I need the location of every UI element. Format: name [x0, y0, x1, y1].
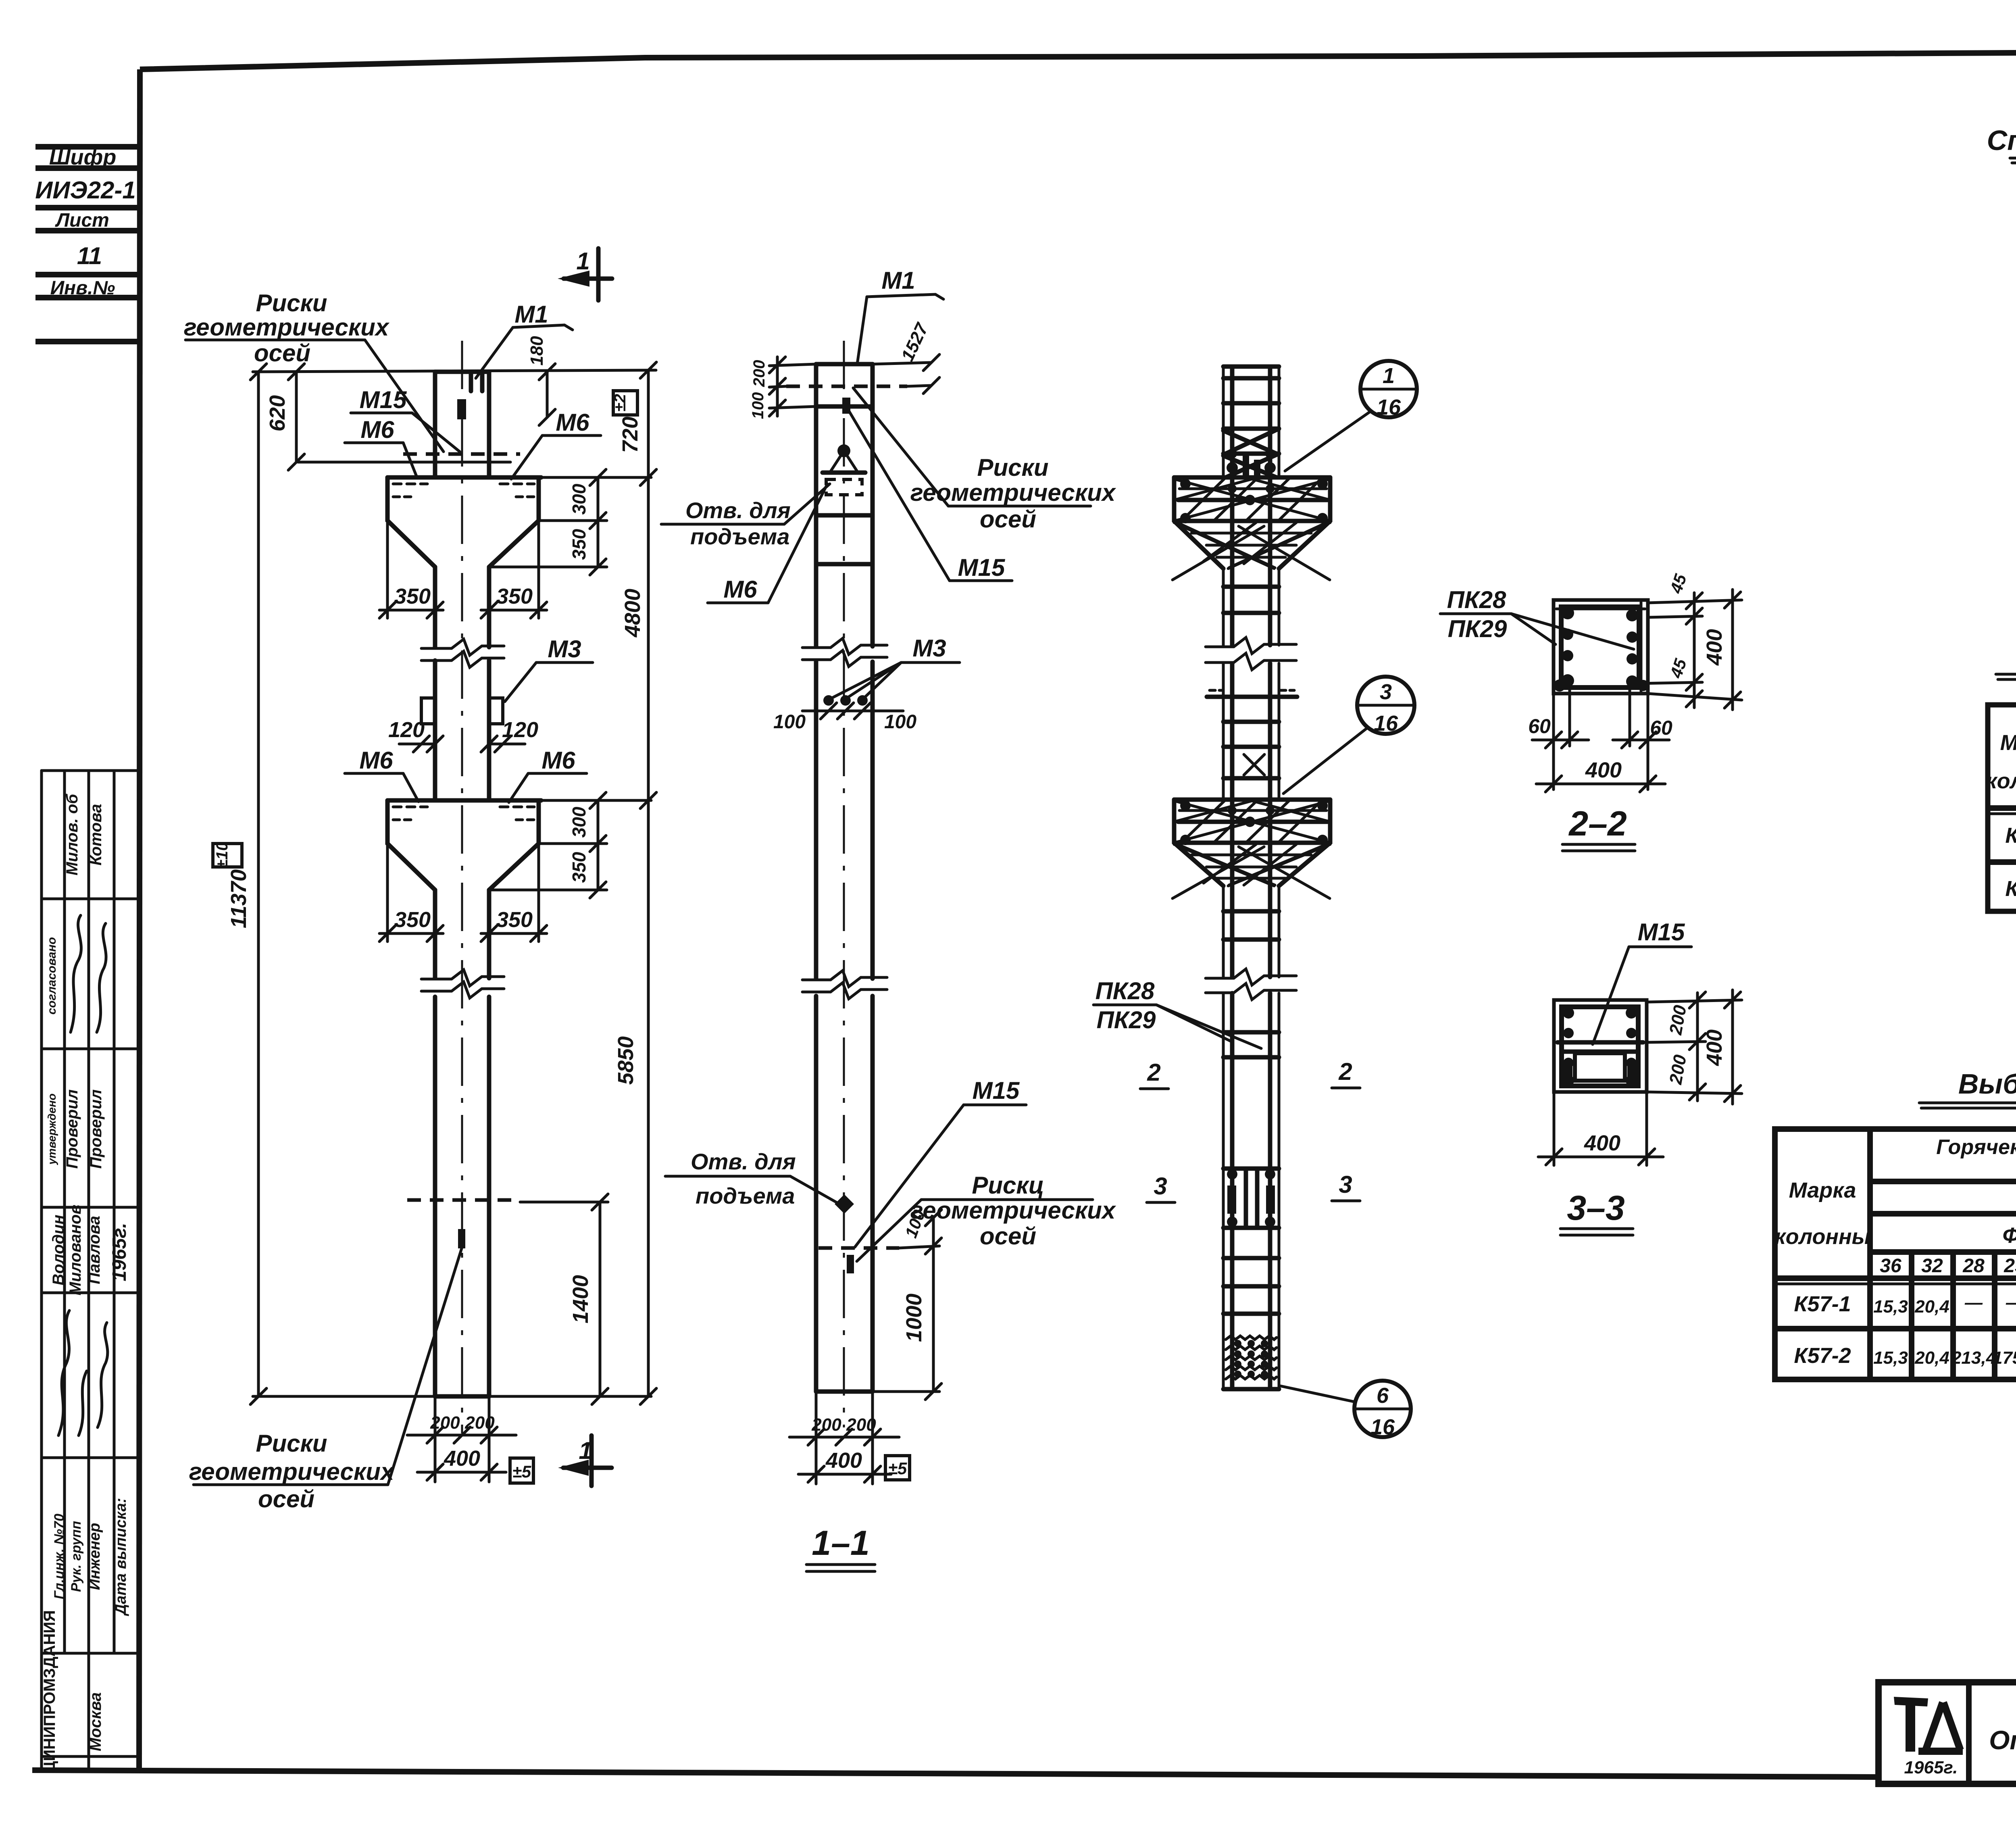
break symbol 2 [421, 970, 504, 986]
dim 11370 [257, 372, 260, 1396]
svg-text:М15: М15 [360, 386, 407, 413]
bottom mesh [1226, 1336, 1277, 1340]
svg-text:15,3: 15,3 [1873, 1348, 1908, 1368]
svg-text:Рискц: Рискц [972, 1172, 1044, 1199]
svg-text:Москва: Москва [87, 1692, 104, 1751]
ties below corbel2 [1223, 909, 1279, 914]
svg-text:Милов. об: Милов. об [63, 794, 81, 875]
svg-text:ПК28: ПК28 [1095, 977, 1155, 1004]
break 2 [1206, 969, 1296, 985]
svg-text:11: 11 [77, 242, 102, 269]
svg-text:согласовано: согласовано [45, 937, 58, 1015]
svg-text:1: 1 [1383, 364, 1395, 388]
dims 100 100 [802, 710, 903, 713]
svg-text:Марка: Марка [2000, 731, 2016, 755]
svg-text:20,4: 20,4 [1914, 1348, 1949, 1368]
svg-text:подъема: подъема [696, 1183, 795, 1208]
svg-text:60: 60 [1528, 715, 1551, 738]
svg-text:К57-2: К57-2 [2005, 877, 2016, 901]
svg-text:5850: 5850 [614, 1036, 638, 1085]
section circle 1/16 [1360, 361, 1417, 417]
svg-text:±2: ±2 [611, 394, 629, 412]
M1 embed marks at column top [469, 373, 473, 391]
svg-text:М6: М6 [360, 416, 394, 443]
svg-text:Котова: Котова [87, 804, 105, 866]
svg-text:1965г.: 1965г. [1904, 1758, 1958, 1777]
svg-text:15,3: 15,3 [1873, 1297, 1908, 1317]
table 3: steel summary per column [1774, 1068, 2016, 1379]
corbel 2 [387, 798, 541, 803]
right ext + ticks at top [873, 363, 931, 364]
svg-text:300: 300 [569, 806, 589, 838]
svg-text:Проверил: Проверил [63, 1089, 81, 1169]
svg-text:16: 16 [1374, 711, 1398, 735]
axis mark dashes bottom [407, 1198, 520, 1202]
svg-text:400: 400 [1584, 1131, 1620, 1155]
svg-text:620: 620 [265, 395, 289, 431]
svg-text:11370: 11370 [227, 869, 251, 928]
svg-text:Риски: Риски [256, 290, 327, 317]
svg-text:ИИЭ22-1: ИИЭ22-1 [35, 177, 136, 204]
svg-text:6: 6 [1377, 1383, 1389, 1408]
svg-text:350: 350 [496, 584, 533, 608]
svg-text:колонны: колонны [1986, 769, 2016, 793]
svg-text:175,8: 175,8 [1993, 1348, 2016, 1368]
M15 channel embed [1558, 1040, 1643, 1045]
svg-text:утверждено: утверждено [46, 1094, 58, 1166]
svg-text:Отв. для: Отв. для [685, 498, 791, 523]
svg-text:2: 2 [1338, 1058, 1352, 1085]
svg-text:±5: ±5 [888, 1459, 907, 1478]
svg-text:Лист: Лист [55, 210, 109, 231]
dim 350 under corbel2 [386, 844, 389, 942]
left signature strip (rotated stamp) [41, 771, 139, 1773]
M15 embed mark [842, 398, 850, 414]
svg-text:16: 16 [1377, 395, 1401, 419]
svg-text:ЦИНИПРОМЗДАНИЯ: ЦИНИПРОМЗДАНИЯ [41, 1610, 58, 1773]
svg-text:28: 28 [1962, 1255, 1985, 1277]
right dims 45/45/400 [1648, 600, 1742, 603]
svg-text:1–1: 1–1 [812, 1524, 870, 1563]
section mark 1 bottom [589, 1435, 594, 1486]
dim 720 / 4800 / 5850 right chain [647, 370, 650, 1396]
svg-text:колонны: колонны [1774, 1225, 1870, 1249]
ties below corbel1 [1223, 585, 1279, 589]
shaft outline [814, 364, 818, 646]
corbel 1 [1174, 475, 1330, 480]
svg-text:100: 100 [773, 711, 806, 733]
TD logo [1894, 1697, 1928, 1706]
svg-text:подъема: подъема [690, 524, 789, 549]
axis mark dashes top [403, 452, 520, 456]
svg-text:1400: 1400 [569, 1275, 593, 1323]
svg-text:М6: М6 [556, 409, 589, 436]
section circle 3/16 [1357, 677, 1414, 734]
lifting hole mark [837, 444, 850, 457]
rebar dots [1563, 1007, 1574, 1019]
svg-text:400: 400 [1585, 758, 1622, 782]
svg-text:Проверил: Проверил [87, 1089, 105, 1169]
svg-text:Риски: Риски [977, 454, 1048, 481]
svg-text:400: 400 [444, 1446, 480, 1471]
svg-text:2–2: 2–2 [1568, 804, 1627, 843]
svg-text:400: 400 [1702, 629, 1727, 666]
corbel anchor dashes [393, 483, 427, 485]
svg-text:350: 350 [394, 908, 431, 932]
dim 120 at M3 [399, 743, 435, 746]
rebar dots [1561, 606, 1574, 619]
svg-text:120: 120 [502, 718, 538, 742]
dim 300/350 corbel1 [597, 477, 600, 567]
ties mid [1207, 695, 1297, 699]
main bars [1230, 367, 1235, 645]
svg-text:60: 60 [1650, 717, 1672, 739]
svg-text:36: 36 [1880, 1255, 1901, 1277]
view 2: section 1-1 elevation [661, 267, 1261, 1571]
section circle 6/16 [1354, 1381, 1411, 1437]
svg-text:Риски: Риски [256, 1430, 327, 1457]
M3 anchor plates [421, 698, 435, 724]
bottom dims 200 200 400 [434, 1396, 437, 1482]
header double line + data row separator [1775, 1275, 2016, 1281]
svg-text:300: 300 [569, 483, 589, 515]
svg-text:350: 350 [569, 852, 589, 883]
svg-text:2: 2 [1147, 1059, 1160, 1086]
svg-text:3: 3 [1339, 1171, 1352, 1198]
svg-text:3: 3 [1380, 680, 1392, 704]
svg-text:К57-2: К57-2 [1794, 1344, 1851, 1368]
dim 1000 [873, 1390, 939, 1393]
svg-text:Выборка стали на одну ко: Выборка стали на одну колонну , кг [1958, 1068, 2016, 1100]
break 1 [1206, 638, 1296, 654]
dim 180 top [546, 372, 549, 417]
svg-text:32: 32 [1921, 1255, 1943, 1277]
dim 620 [295, 372, 298, 462]
svg-text:180: 180 [527, 336, 547, 366]
svg-text:Спецификация марок арматурны: Спецификация марок арматурных [1987, 125, 2016, 156]
dim 300/350 corbel2 [597, 800, 600, 890]
svg-text:ПК29: ПК29 [1448, 615, 1507, 642]
svg-text:М6: М6 [541, 747, 575, 774]
svg-text:200: 200 [464, 1413, 495, 1433]
bottom dims 60/60/400 [1552, 694, 1555, 790]
centreline [461, 341, 463, 1433]
svg-text:720: 720 [618, 417, 642, 453]
svg-text:±5: ±5 [512, 1462, 531, 1481]
svg-text:М1: М1 [881, 267, 915, 294]
svg-text:М3: М3 [548, 635, 581, 663]
svg-text:213,4: 213,4 [1951, 1348, 1996, 1368]
ties lower 2 [1223, 1256, 1279, 1260]
svg-text:1965г.: 1965г. [109, 1223, 130, 1281]
svg-text:3–3: 3–3 [1567, 1189, 1625, 1227]
column outline top section [433, 372, 437, 477]
svg-text:М6: М6 [723, 576, 757, 603]
svg-text:1000: 1000 [902, 1294, 926, 1342]
break symbols [802, 638, 887, 654]
svg-text:16: 16 [1370, 1415, 1395, 1439]
svg-text:Павлова: Павлова [85, 1216, 103, 1284]
svg-text:геометрических: геометрических [189, 1458, 395, 1485]
svg-text:осей: осей [254, 340, 310, 367]
ties top segment [1223, 376, 1279, 381]
svg-text:геометрических: геометрических [910, 479, 1116, 506]
extension lines [253, 370, 656, 372]
svg-text:Отв. для: Отв. для [691, 1149, 796, 1174]
svg-text:М3: М3 [912, 635, 946, 662]
svg-text:Гл.инж. №70: Гл.инж. №70 [52, 1514, 67, 1599]
svg-text:К57-1: К57-1 [1794, 1292, 1851, 1316]
svg-text:ПК29: ПК29 [1097, 1006, 1156, 1033]
svg-text:120: 120 [388, 718, 425, 742]
svg-text:геометрических: геометрических [184, 314, 390, 341]
svg-text:200: 200 [430, 1413, 460, 1433]
svg-text:Марка: Марка [1789, 1178, 1856, 1202]
bottom dim 400 [1553, 1092, 1556, 1165]
svg-text:25: 25 [2004, 1255, 2016, 1277]
upper-left stamp rows [35, 145, 139, 342]
shaft lower [433, 890, 437, 978]
svg-text:200: 200 [750, 360, 768, 388]
svg-text:ПК28: ПК28 [1447, 586, 1506, 613]
right dims 200/200/400 [1647, 1000, 1742, 1002]
table 2: indicators per column [1986, 640, 2016, 911]
svg-text:—: — [1964, 1293, 1983, 1313]
svg-text:1: 1 [576, 248, 589, 275]
svg-text:М6: М6 [359, 747, 393, 774]
M15 embed mark top [457, 399, 466, 419]
shaft mid [433, 567, 437, 647]
svg-text:Володин: Володин [50, 1215, 67, 1285]
svg-text:350: 350 [394, 584, 431, 608]
centreline [843, 341, 845, 1427]
svg-text:осей: осей [980, 506, 1036, 533]
shaft outer edges [1222, 367, 1225, 477]
svg-text:4800: 4800 [621, 589, 645, 638]
svg-text:К57-1: К57-1 [2005, 823, 2016, 848]
M15 embed zone [1223, 1167, 1279, 1171]
section mark 1 top [596, 248, 601, 300]
corbel 1 [387, 475, 541, 480]
svg-text:Ф , мм: Ф , мм [2002, 1223, 2016, 1248]
break symbol 1 [421, 639, 504, 655]
svg-text:Милованов: Милованов [67, 1204, 84, 1295]
svg-text:3: 3 [1154, 1173, 1167, 1200]
svg-text:100: 100 [884, 711, 916, 733]
section 2-2 [1440, 571, 1742, 851]
svg-text:Дата выписка:: Дата выписка: [112, 1498, 129, 1617]
svg-text:Опалубочный и арматурный че: Опалубочный и арматурный чертежи. [1989, 1725, 2016, 1755]
corbel 2 [1174, 798, 1330, 802]
svg-text:М15: М15 [973, 1077, 1020, 1104]
dim 1400 bottom right [599, 1202, 602, 1396]
M15 embed mark bottom [458, 1229, 465, 1248]
section 3-3 [1538, 919, 1742, 1235]
svg-text:100: 100 [749, 392, 767, 419]
dims 200/100 left [769, 364, 816, 366]
svg-text:350: 350 [569, 529, 589, 560]
svg-text:400: 400 [825, 1448, 862, 1473]
title block bottom right [1879, 1682, 2016, 1828]
dim 350 under corbel1 [386, 521, 389, 618]
svg-text:осей: осей [258, 1485, 314, 1513]
dim 100 (riski offset) [899, 1246, 939, 1248]
svg-text:М15: М15 [1638, 919, 1685, 946]
svg-text:Рук. групп: Рук. групп [69, 1521, 84, 1592]
svg-text:М1: М1 [514, 301, 548, 328]
svg-text:Инв.№: Инв.№ [50, 277, 115, 299]
svg-text:200: 200 [846, 1415, 876, 1435]
svg-text:200: 200 [811, 1415, 841, 1435]
svg-text:±10: ±10 [213, 842, 231, 869]
svg-text:Инженер: Инженер [86, 1523, 103, 1590]
svg-text:1: 1 [579, 1437, 592, 1464]
svg-text:Горячекатаная арматурная ста: Горячекатаная арматурная сталь [1936, 1135, 2016, 1159]
svg-text:Шифр: Шифр [49, 145, 117, 169]
svg-text:М15: М15 [958, 554, 1006, 581]
bottom dims [815, 1392, 818, 1484]
view 3: reinforcement elevation [1173, 361, 1417, 1439]
svg-text:20,4: 20,4 [1914, 1297, 1949, 1317]
svg-text:осей: осей [980, 1223, 1036, 1250]
svg-text:—: — [2006, 1293, 2016, 1313]
ties lower [1223, 1030, 1279, 1035]
svg-text:400: 400 [1702, 1029, 1727, 1066]
svg-text:350: 350 [496, 908, 533, 932]
diameter column lines [1909, 1252, 1914, 1379]
view 1: formwork elevation of column [184, 248, 656, 1513]
internal lines [786, 385, 907, 388]
table 1: specification of reinforcement marks [1987, 125, 2016, 425]
